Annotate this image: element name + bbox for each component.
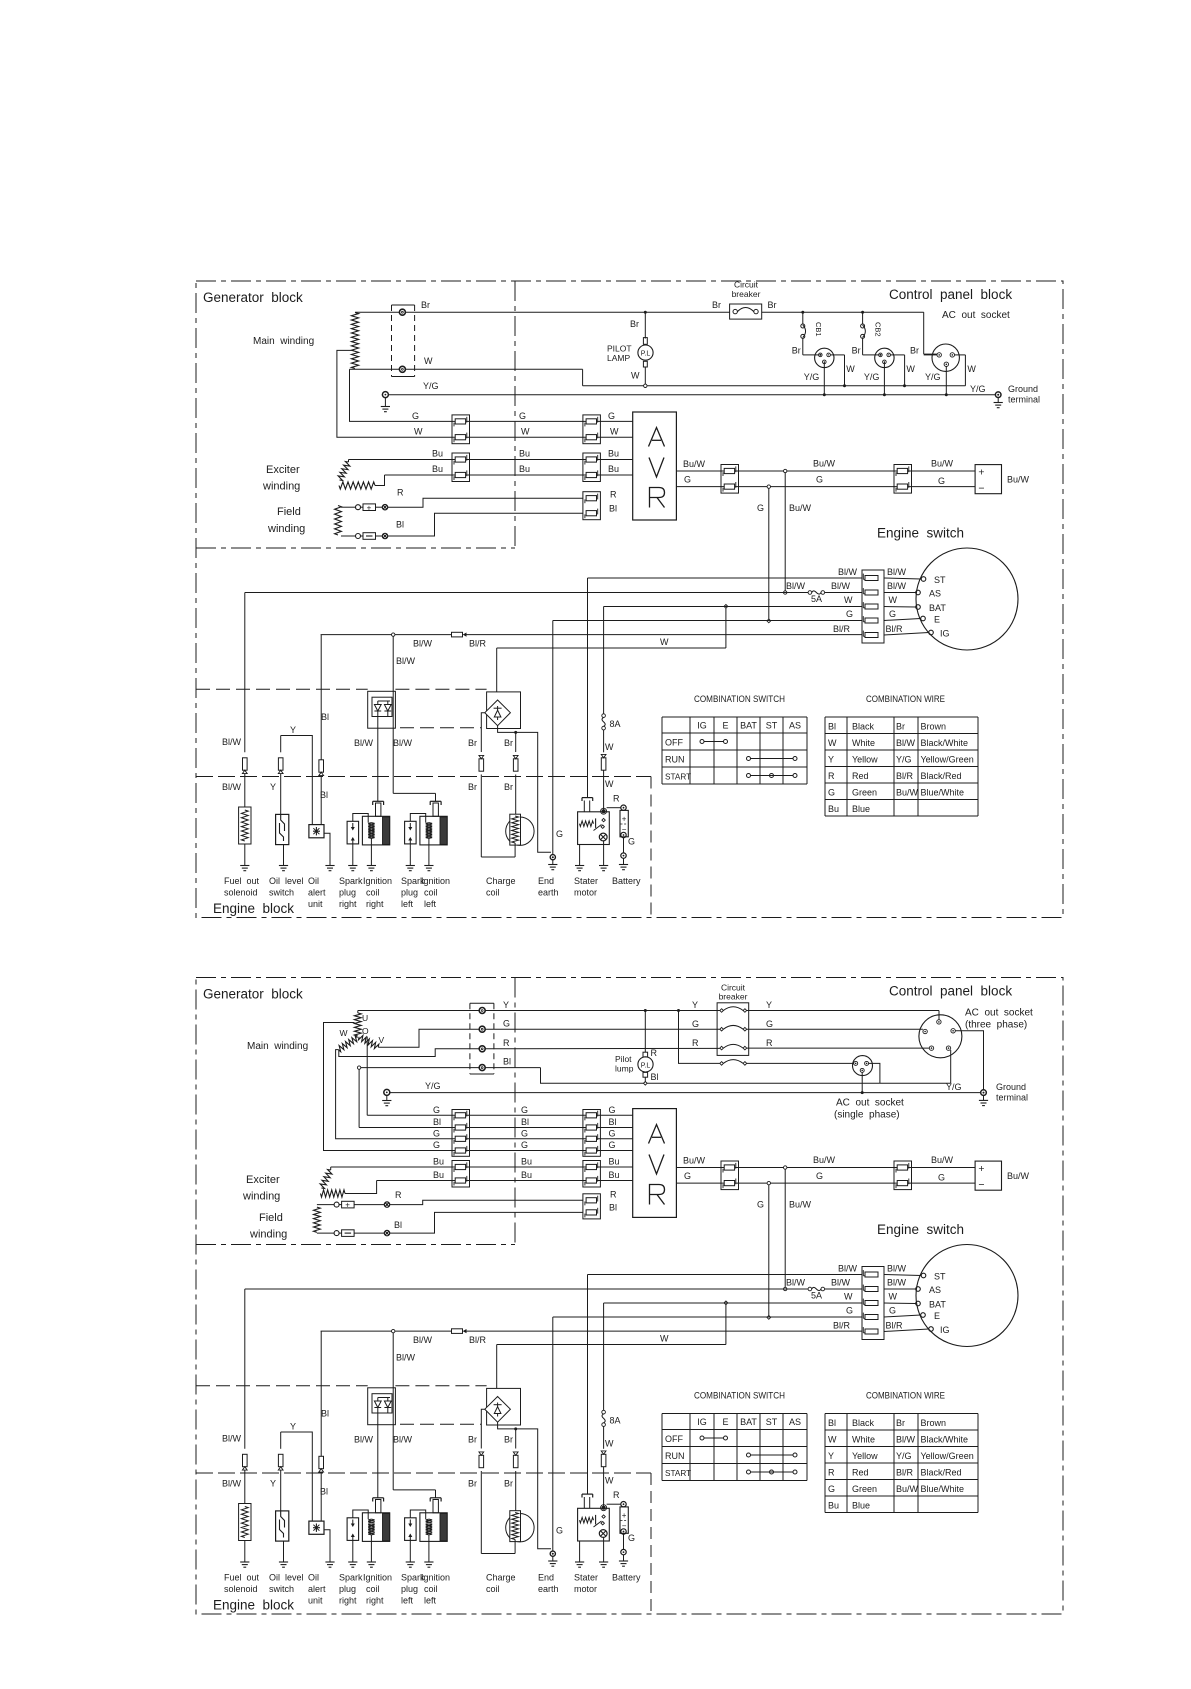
- labels pilot lamp (3ph): [615, 1048, 659, 1082]
- labels U O V W winding: [340, 1013, 385, 1045]
- svg-text:breaker: breaker: [732, 289, 761, 299]
- rectifier bridge: [485, 692, 521, 729]
- svg-text:terminal: terminal: [996, 1093, 1028, 1103]
- svg-text:Bl/W: Bl/W: [887, 1278, 907, 1288]
- svg-text:Bl/R: Bl/R: [469, 1335, 487, 1345]
- svg-text:COMBINATION SWITCH: COMBINATION SWITCH: [694, 694, 785, 704]
- label Engine switch: [877, 1222, 964, 1237]
- wire plug left to ground: [409, 1540, 411, 1562]
- svg-text:Red: Red: [852, 771, 869, 781]
- wire Bu/W from AVR to battery: [676, 470, 975, 472]
- svg-text:Oil: Oil: [308, 1573, 319, 1583]
- svg-text:W: W: [521, 427, 530, 437]
- op-amp/regulator AVR box: [633, 412, 677, 520]
- svg-text:G: G: [556, 829, 563, 839]
- label Y/G socket 3: [925, 372, 941, 382]
- svg-text:Y: Y: [290, 725, 296, 735]
- svg-text:alert: alert: [308, 888, 326, 898]
- svg-text:Bu: Bu: [432, 449, 443, 459]
- svg-text:Br: Br: [792, 346, 801, 356]
- svg-text:G: G: [412, 411, 419, 421]
- wire Bu1 to AVR: [349, 459, 633, 461]
- svg-text:Bl/R: Bl/R: [833, 624, 851, 634]
- label Charge coil: [486, 1573, 516, 1595]
- svg-text:Oil level: Oil level: [269, 1573, 304, 1583]
- label Field winding: [267, 506, 305, 535]
- wire V to G terminal: [378, 1029, 479, 1047]
- svg-text:Bu: Bu: [521, 1157, 532, 1167]
- label Control panel block: [889, 287, 1012, 302]
- label Ignition coil left: [421, 876, 450, 909]
- wire Bl/W AS run with 5A fuse: [245, 1288, 862, 1290]
- svg-text:switch: switch: [269, 888, 294, 898]
- oil alert unit box: [309, 1521, 324, 1534]
- svg-text:Bu: Bu: [608, 464, 619, 474]
- label G battery: [628, 1533, 635, 1543]
- fuse pin AS: [863, 1285, 878, 1292]
- connector CN2 Bu/W-G: [894, 1161, 912, 1190]
- battery: [620, 1502, 628, 1562]
- stater motor box: [578, 1494, 610, 1541]
- svg-text:Bu/W: Bu/W: [896, 788, 919, 798]
- svg-text:Bl/W: Bl/W: [354, 1435, 374, 1445]
- wire pole4 feed: [679, 1011, 720, 1064]
- label G end earth: [556, 1526, 563, 1536]
- svg-text:Bu/W: Bu/W: [1007, 1171, 1030, 1181]
- label Engine block: [213, 1598, 294, 1613]
- svg-text:Bl/W: Bl/W: [838, 1264, 858, 1274]
- wire O tap leg: [367, 1037, 452, 1116]
- svg-text:Circuit: Circuit: [734, 280, 759, 290]
- node G junction: [767, 485, 770, 488]
- svg-text:Bl: Bl: [828, 1418, 836, 1428]
- connector main G-W col2: [583, 415, 601, 444]
- svg-text:left: left: [424, 1596, 437, 1606]
- svg-text:Bu: Bu: [828, 804, 839, 814]
- svg-text:W: W: [846, 364, 855, 374]
- svg-text:Main winding: Main winding: [247, 1041, 308, 1052]
- svg-text:Br: Br: [421, 300, 430, 310]
- svg-text:Bu: Bu: [609, 1170, 620, 1180]
- labels W stater: [605, 1439, 614, 1486]
- wire Bl/W stater riser: [587, 578, 589, 798]
- op-amp/regulator AVR box: [633, 1109, 677, 1218]
- connector W stater: [601, 1451, 606, 1467]
- svg-text:G: G: [519, 411, 526, 421]
- table COMBINATION WIRE grid: [825, 1414, 978, 1513]
- svg-text:Y: Y: [270, 1479, 276, 1489]
- frame: outer dash-dot border: [196, 978, 1063, 1615]
- label Br at terminal: [421, 300, 430, 310]
- AC socket 1: [815, 348, 834, 367]
- svg-text:Bl: Bl: [320, 1487, 328, 1497]
- svg-text:Fuel out: Fuel out: [224, 1573, 260, 1583]
- connector oil alert: [319, 760, 324, 776]
- wire plug left to coil: [410, 814, 425, 823]
- labels right of connector: [886, 567, 907, 634]
- breaker CB1: [801, 312, 823, 338]
- wire Y oil level riser: [280, 736, 282, 815]
- ground plug left: [406, 866, 415, 871]
- svg-text:E: E: [722, 721, 728, 731]
- table COMBINATION SWITCH headers: [697, 721, 801, 731]
- terminal E: [921, 615, 940, 625]
- charge coil: [506, 1511, 534, 1554]
- svg-text:Bu: Bu: [608, 449, 619, 459]
- wire pole4 to single socket: [747, 1062, 854, 1064]
- engine switch connector block: [862, 1267, 884, 1340]
- svg-text:Yellow/Green: Yellow/Green: [921, 1451, 974, 1461]
- stater motor contact: [599, 1530, 607, 1538]
- label AC out socket single: [834, 1098, 904, 1121]
- svg-text:G: G: [938, 476, 945, 486]
- labels Bl/W ignition: [354, 1353, 416, 1445]
- wire winding to AVR G: [350, 369, 453, 421]
- table COMBINATION SWITCH grid: [662, 717, 807, 784]
- label Engine block: [213, 901, 294, 916]
- switch contacts START: [747, 774, 798, 778]
- connector main G-W col1: [452, 415, 470, 444]
- svg-text:Y/G: Y/G: [423, 381, 439, 391]
- svg-text:coil: coil: [486, 1584, 500, 1594]
- svg-text:Oil level: Oil level: [269, 876, 304, 886]
- labels Bu/W G on output rows: [683, 459, 954, 487]
- ground coil right: [367, 1562, 376, 1567]
- boundary: engine block right dashed: [650, 1473, 652, 1614]
- connector CN2 Bu/W-G: [894, 465, 912, 494]
- label AC out socket: [942, 310, 1010, 321]
- label Generator block: [203, 987, 303, 1002]
- wire connector to E: [884, 619, 921, 621]
- ground fuel solenoid: [240, 866, 249, 871]
- svg-text:winding: winding: [262, 481, 300, 493]
- svg-text:Bu/W: Bu/W: [1007, 475, 1030, 485]
- wire Br from winding: [355, 311, 399, 313]
- svg-text:Y: Y: [290, 1422, 296, 1432]
- connector Bu col2 (3ph): [583, 1161, 601, 1188]
- svg-text:Black: Black: [852, 722, 875, 732]
- svg-text:Bu: Bu: [433, 1170, 444, 1180]
- label Br CB2: [852, 346, 861, 356]
- svg-text:Bl/W: Bl/W: [887, 1264, 907, 1274]
- svg-text:coil: coil: [366, 888, 380, 898]
- svg-text:R: R: [610, 1190, 617, 1200]
- fuse pin IG: [863, 1327, 878, 1334]
- engine switch connector block: [862, 570, 884, 643]
- connector CN1 Bu/W-G: [721, 465, 739, 494]
- connector Bu col1: [452, 453, 470, 482]
- battery: [620, 805, 628, 865]
- labels Bl/W fuel: [222, 737, 242, 792]
- labels W stater: [605, 742, 614, 789]
- svg-text:Br: Br: [910, 346, 919, 356]
- ground terminal (3ph): [981, 1090, 987, 1101]
- svg-text:Y/G: Y/G: [896, 1451, 912, 1461]
- svg-text:Br: Br: [468, 738, 477, 748]
- frame: outer dash-dot border: [196, 281, 1063, 918]
- terminal R (3ph): [479, 1046, 485, 1052]
- wire connector to IG: [884, 633, 929, 636]
- wire G end earth: [552, 621, 554, 855]
- labels Br breaker: [712, 300, 777, 310]
- svg-text:W: W: [828, 1435, 837, 1445]
- svg-text:W: W: [844, 1292, 853, 1302]
- svg-text:Blue/White: Blue/White: [921, 1484, 965, 1494]
- wire rectifier left Br: [481, 713, 515, 857]
- label Y/G terminal (3ph): [946, 1082, 962, 1092]
- svg-text:Bl/R: Bl/R: [886, 1321, 904, 1331]
- labels Bl/W ignition: [354, 656, 416, 748]
- wire W BAT run: [604, 606, 862, 608]
- svg-text:Bl: Bl: [609, 1117, 617, 1127]
- wire R battery: [607, 1490, 621, 1504]
- svg-text:AC out socket: AC out socket: [965, 1008, 1033, 1019]
- svg-text:Bu/W: Bu/W: [931, 459, 954, 469]
- svg-text:Y/G: Y/G: [946, 1082, 962, 1092]
- wire Y jog to oil alert: [281, 1432, 313, 1521]
- svg-text:O: O: [362, 1026, 369, 1036]
- ground end earth: [548, 1561, 557, 1566]
- boundary dash through diode area: [196, 1386, 487, 1425]
- boundary: engine block right dashed: [650, 777, 652, 918]
- label 8A: [610, 719, 621, 729]
- svg-text:CB1: CB1: [814, 322, 823, 337]
- svg-text:G: G: [521, 1105, 528, 1115]
- wire Y jog to oil alert: [281, 736, 313, 825]
- wire coil left to ground: [428, 838, 430, 865]
- svg-text:Bl: Bl: [521, 1117, 529, 1127]
- svg-text:solenoid: solenoid: [224, 888, 258, 898]
- svg-text:Bl: Bl: [651, 1072, 659, 1082]
- wire R to connector: [388, 498, 583, 507]
- terminal E: [921, 1311, 940, 1321]
- svg-text:AS: AS: [929, 1285, 941, 1295]
- label Fuel out solenoid: [224, 876, 260, 898]
- wire G E run: [553, 1316, 862, 1318]
- svg-text:Bl/W: Bl/W: [887, 581, 907, 591]
- svg-text:alert: alert: [308, 1584, 326, 1594]
- wire riser G to E: [767, 1185, 771, 1320]
- ignition coil right: [362, 1498, 389, 1542]
- svg-text:IG: IG: [697, 1417, 707, 1427]
- wire three socket br pin: [950, 1050, 952, 1083]
- svg-text:Spark: Spark: [339, 1573, 363, 1583]
- svg-text:Y/G: Y/G: [925, 372, 941, 382]
- boundary: generator/control vertical dash-dot: [514, 978, 516, 1248]
- main winding V coil: [358, 1035, 378, 1048]
- svg-text:E: E: [934, 615, 940, 625]
- svg-text:G: G: [828, 788, 835, 798]
- ground coil left: [424, 1562, 433, 1567]
- ground stater right: [599, 866, 608, 871]
- AC socket 3: [932, 344, 959, 371]
- svg-text:Y/G: Y/G: [425, 1081, 441, 1091]
- ground oil level: [279, 866, 288, 871]
- battery charge box + -: [975, 465, 1001, 495]
- AC out socket single phase: [853, 1056, 873, 1076]
- svg-text:Bu/W: Bu/W: [789, 503, 812, 513]
- svg-text:Br: Br: [630, 319, 639, 329]
- svg-text:+: +: [978, 467, 984, 479]
- svg-text:5A: 5A: [811, 594, 822, 604]
- svg-text:P.L: P.L: [641, 351, 651, 358]
- fuse pin E: [863, 1313, 878, 1320]
- terminal box: [392, 305, 415, 377]
- label Ignition coil left: [421, 1573, 450, 1606]
- terminal AS: [916, 1285, 941, 1295]
- svg-text:G: G: [757, 503, 764, 513]
- boundary: generator/control vertical dash-dot: [514, 281, 516, 551]
- svg-text:Battery: Battery: [612, 876, 641, 886]
- fuse pin E: [863, 616, 878, 623]
- svg-text:Generator block: Generator block: [203, 987, 303, 1002]
- fuse 8A: [602, 714, 606, 730]
- wire W to rectifier: [496, 648, 498, 692]
- wire riser W BAT to W: [724, 1301, 728, 1345]
- svg-text:G: G: [938, 1173, 945, 1183]
- svg-text:Red: Red: [852, 1468, 869, 1478]
- label Bu/W right of battery box: [1007, 1171, 1030, 1181]
- svg-text:G: G: [521, 1140, 528, 1150]
- svg-text:W: W: [906, 364, 915, 374]
- svg-text:Fuel out: Fuel out: [224, 876, 260, 886]
- ground terminal: [995, 392, 1001, 403]
- svg-text:Bl/W: Bl/W: [413, 1335, 433, 1345]
- ground oil level: [279, 1562, 288, 1567]
- svg-text:G: G: [628, 837, 635, 847]
- connector Br right: [513, 1452, 518, 1468]
- engine switch circle: [916, 1245, 1018, 1347]
- label Ignition coil right: [363, 876, 392, 909]
- svg-text:Pilot: Pilot: [615, 1054, 632, 1064]
- labels R Bl wires: [396, 488, 617, 530]
- svg-text:Bl/W: Bl/W: [831, 581, 851, 591]
- svg-text:CB2: CB2: [874, 322, 883, 337]
- wire G row: [485, 1028, 923, 1030]
- svg-text:Y: Y: [503, 1000, 509, 1010]
- labels Y G R breaker: [692, 1000, 773, 1048]
- svg-text:Black/White: Black/White: [921, 1435, 969, 1445]
- fuse pin ST: [863, 1270, 878, 1277]
- svg-text:Ground: Ground: [1008, 384, 1038, 394]
- label Exciter winding (3ph): [242, 1174, 280, 1203]
- svg-text:Ground: Ground: [996, 1082, 1026, 1092]
- svg-text:W: W: [340, 1028, 348, 1038]
- wire plug right to ground: [352, 844, 354, 866]
- svg-text:coil: coil: [424, 1584, 438, 1594]
- wire W to R terminal: [339, 1049, 479, 1057]
- label Spark plug right: [339, 876, 363, 909]
- wire Bl to connector (3ph): [390, 1212, 583, 1233]
- wire Y oil level riser: [280, 1432, 282, 1511]
- label Oil level switch: [269, 1573, 304, 1595]
- main winding U coil: [354, 1013, 361, 1036]
- label Circuit breaker (3ph): [719, 983, 748, 1002]
- labels Y oil level: [270, 725, 296, 792]
- svg-text:unit: unit: [308, 1596, 323, 1606]
- svg-text:Bl: Bl: [503, 1057, 511, 1067]
- svg-text:motor: motor: [574, 1584, 597, 1594]
- svg-text:G: G: [433, 1140, 440, 1150]
- wire Bl/W fuel solenoid riser: [244, 1289, 246, 1504]
- table COMBINATION WIRE grid: [825, 717, 978, 816]
- wire oil level to ground: [283, 845, 285, 866]
- svg-text:Black/Red: Black/Red: [921, 771, 962, 781]
- svg-text:Charge: Charge: [486, 876, 516, 886]
- svg-text:W: W: [844, 595, 853, 605]
- svg-text:8A: 8A: [610, 1416, 621, 1426]
- svg-text:G: G: [889, 609, 896, 619]
- svg-text:right: right: [366, 899, 384, 909]
- svg-text:G: G: [609, 1140, 616, 1150]
- svg-text:solenoid: solenoid: [224, 1584, 258, 1594]
- labels G Bu/W under junctions: [757, 1200, 812, 1210]
- svg-text:breaker: breaker: [719, 992, 748, 1002]
- svg-text:R: R: [610, 490, 617, 500]
- wire socket 3 to YG: [945, 367, 947, 395]
- ground stater left: [575, 866, 584, 871]
- wire riser W BAT to W: [724, 605, 728, 649]
- label Y/G: [423, 381, 439, 391]
- terminal box (3ph): [470, 1003, 494, 1074]
- ground fuel solenoid: [240, 1562, 249, 1567]
- svg-text:W: W: [605, 779, 614, 789]
- label Br pilot: [630, 319, 639, 329]
- labels G Bu/W under junctions: [757, 503, 812, 513]
- wire connector to AS: [884, 592, 916, 594]
- svg-text:G: G: [692, 1019, 699, 1029]
- svg-text:Bu: Bu: [519, 464, 530, 474]
- label 5A: [811, 594, 822, 604]
- svg-text:Stater: Stater: [574, 1573, 598, 1583]
- svg-text:AS: AS: [929, 589, 941, 599]
- svg-text:Br: Br: [468, 1479, 477, 1489]
- breaker pole 3: [720, 1044, 747, 1050]
- svg-text:Br: Br: [768, 300, 777, 310]
- svg-text:OFF: OFF: [665, 738, 683, 748]
- terminal IG: [929, 629, 950, 639]
- wire oil alert to ground: [324, 833, 330, 865]
- svg-text:AS: AS: [789, 1417, 801, 1427]
- label G battery: [628, 837, 635, 847]
- boundary: generator block bottom dash-dot: [196, 547, 515, 549]
- table COMBINATION SWITCH header: [694, 1391, 785, 1401]
- svg-text:R: R: [395, 1190, 402, 1200]
- svg-text:V: V: [379, 1035, 385, 1045]
- svg-text:AC out socket: AC out socket: [836, 1098, 904, 1109]
- connector oil level: [278, 1454, 283, 1470]
- label W socket 3: [967, 364, 976, 374]
- labels Bl oil alert: [320, 712, 329, 800]
- svg-text:Battery: Battery: [612, 1573, 641, 1583]
- svg-text:plug: plug: [401, 1584, 418, 1594]
- svg-text:Bl/R: Bl/R: [833, 1321, 851, 1331]
- label Main winding (3ph): [247, 1041, 308, 1052]
- node Bl ring: [357, 1066, 360, 1069]
- wire Bl to connector: [388, 513, 583, 536]
- wire Bl/W AS run with 5A fuse: [245, 592, 862, 594]
- label Main winding: [253, 336, 314, 347]
- svg-text:Bl/W: Bl/W: [354, 738, 374, 748]
- svg-text:W: W: [605, 1439, 614, 1449]
- svg-text:COMBINATION SWITCH: COMBINATION SWITCH: [694, 1391, 785, 1401]
- svg-text:Blue: Blue: [852, 804, 870, 814]
- svg-text:plug: plug: [401, 888, 418, 898]
- svg-text:Br: Br: [504, 1479, 513, 1489]
- svg-text:Generator block: Generator block: [203, 290, 303, 305]
- label End earth: [538, 876, 559, 898]
- oil level switch box: [276, 1511, 289, 1541]
